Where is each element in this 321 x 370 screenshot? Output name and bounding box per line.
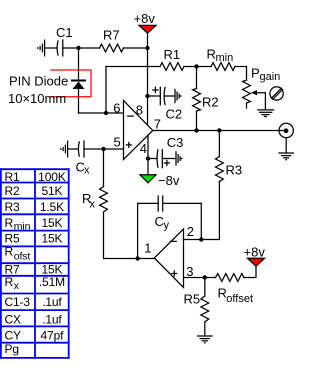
op-amp U2 [154,229,183,288]
node B (+8v rail / R7) [145,46,149,50]
svg-text:+8v: +8v [244,245,266,260]
svg-text:C1: C1 [56,25,73,40]
svg-text:R: R [5,245,14,259]
svg-text:1.5K: 1.5K [40,200,64,214]
wire [163,202,202,204]
wire (Cy right riser) [200,203,202,239]
PIN diode outline box (red) [51,70,91,97]
table grid (component values) [1,169,69,358]
capacitor C1 [56,25,73,56]
capacitor Cy [155,196,170,232]
resistor Rmin [207,47,236,71]
svg-text:8: 8 [136,102,143,117]
svg-text:min: min [216,52,234,64]
node C (pin6/feedback junction) [104,111,108,115]
wire (U1 output) [153,130,285,132]
ground (output connector) [279,153,293,161]
svg-text:offset: offset [226,293,253,305]
svg-text:CX: CX [5,312,22,326]
wire [148,158,157,160]
svg-text:x: x [90,199,96,211]
wire [138,202,159,204]
node A (C1/R7/diode junction) [76,46,80,50]
ground (input, Cx left) [60,141,68,157]
wire [204,322,206,336]
svg-text:R5: R5 [184,292,201,307]
svg-text:6: 6 [113,100,120,115]
wire [104,212,138,259]
wire [78,89,80,113]
svg-text:51K: 51K [41,184,62,198]
wire [79,112,124,114]
svg-text:15K: 15K [41,216,62,230]
ground (R5) [198,336,212,344]
wire [196,111,198,131]
svg-text:P: P [251,66,260,81]
node K (pin2/Cy/R3 junction) [199,237,203,241]
screwdriver adjust icon [270,87,283,100]
svg-text:2: 2 [187,224,194,239]
node J (U2 out/Cy junction) [135,256,139,260]
svg-text:R5: R5 [5,231,21,245]
-8v supply symbol [140,173,180,188]
svg-text:15K: 15K [41,231,62,245]
wire [63,47,100,49]
wire [196,67,198,89]
wire [124,47,148,49]
wire [285,138,287,153]
svg-text:C3: C3 [167,135,184,150]
output connector J1 [279,123,293,137]
table text (component values) [5,170,66,356]
ground (input, C1 left) [37,40,45,56]
resistor Roffset [216,274,254,305]
wire [148,95,161,97]
op-amp U1 [124,101,153,160]
wire [244,266,256,277]
node L (pin3/R5/Roffset junction) [203,275,207,279]
wire [218,131,220,157]
ground (Pgain wiper) [258,110,274,117]
svg-text:y: y [164,220,170,232]
wire [84,148,124,150]
+8v supply symbol [134,11,157,33]
resistor R1 [160,47,184,70]
svg-text:x: x [14,280,20,292]
svg-text:R3: R3 [226,163,243,178]
resistor R5 [184,292,209,323]
svg-text:−8v: −8v [158,173,180,188]
resistor R2 [193,89,219,112]
svg-text:100K: 100K [38,170,66,184]
svg-text:CY: CY [5,329,22,343]
wire [162,158,176,160]
svg-text:.51M: .51M [39,275,65,289]
svg-text:R7: R7 [103,28,120,43]
svg-text:7: 7 [154,116,161,131]
svg-text:C: C [155,214,164,229]
resistor R7 [100,28,124,52]
wire (pin 4) [147,135,149,175]
svg-text:R3: R3 [5,200,21,214]
svg-text:R: R [207,47,216,62]
wire [45,47,57,49]
svg-text:.1uf: .1uf [42,295,62,309]
svg-text:1: 1 [144,240,151,255]
svg-text:R1: R1 [5,170,21,184]
svg-text:R1: R1 [164,47,181,62]
wire [184,66,211,68]
svg-text:+8v: +8v [134,11,156,26]
wire (+8v rail) [147,33,149,125]
resistor Rx [82,187,107,213]
node E (rail/C2 junction) [145,94,149,98]
wire [204,278,206,297]
potentiometer Pgain [243,66,281,109]
node H (R2/output junction) [194,128,198,132]
svg-text:PIN Diode: PIN Diode [9,74,68,89]
wire (feedback top) [106,66,160,68]
svg-text:5: 5 [114,135,121,150]
svg-text:C1-3: C1-3 [5,295,31,309]
svg-text:R2: R2 [5,184,21,198]
capacitor C2 [153,87,182,121]
resistor R3 [216,157,243,182]
svg-text:R: R [5,216,14,230]
node G (pin4/C3 junction) [146,156,150,160]
svg-text:gain: gain [260,71,281,83]
svg-text:10×10mm: 10×10mm [8,91,66,106]
node I (R3/output junction) [217,128,221,132]
node D (R1/Rmin/R2 junction) [194,64,198,68]
svg-text:ofst: ofst [14,251,31,263]
ground (C3) [176,152,183,165]
wiper arrow [251,90,265,110]
wire (pin 2) [184,239,202,241]
wire [78,48,80,81]
wire (feedback riser) [105,67,107,114]
svg-text:.1uf: .1uf [42,312,62,326]
svg-text:4: 4 [140,141,147,156]
svg-text:x: x [84,165,90,177]
svg-text:47pf: 47pf [41,329,65,343]
ground (C2) [175,89,182,102]
svg-text:R2: R2 [202,95,219,110]
wire [164,95,175,97]
svg-text:Pg: Pg [5,342,19,356]
wire (pin 3) [184,277,216,279]
+8v supply symbol (offset) [244,245,266,267]
diode D1 (PIN photodiode) [72,81,85,90]
node F (Cx/pin5/Rx junction) [101,147,105,151]
wire [235,67,247,81]
wire [201,182,219,240]
capacitor Cx [76,141,91,177]
wire [68,148,79,150]
svg-text:C2: C2 [166,107,183,122]
capacitor C3 [157,135,183,168]
wire (Cy left riser) [137,203,139,258]
svg-text:R: R [5,275,14,289]
wire (U2 output) [138,258,155,260]
wire [103,149,105,187]
